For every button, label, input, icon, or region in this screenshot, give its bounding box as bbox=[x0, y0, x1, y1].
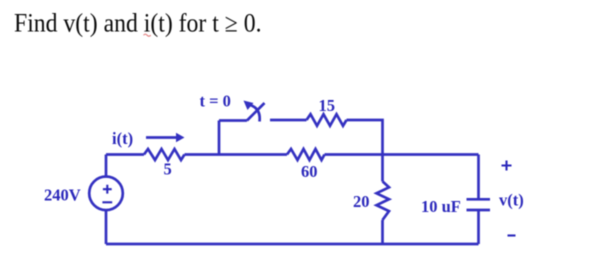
svg-text:5: 5 bbox=[164, 160, 172, 179]
wire: middle rail left segment bbox=[106, 153, 144, 156]
svg-text:v(t): v(t) bbox=[499, 191, 524, 210]
switch SW arrowhead bbox=[244, 101, 254, 111]
wire: switch branch vertical riser bbox=[218, 121, 221, 155]
resistor R 5 ohm bbox=[144, 149, 185, 160]
wire: switch throw to 15 ohm resistor bbox=[270, 119, 307, 122]
svg-text:i(t): i(t) bbox=[112, 129, 133, 148]
voltage source minus sign bbox=[102, 201, 112, 203]
wire: left vertical from middle wire down to source top bbox=[105, 155, 108, 177]
wire: capacitor branch upper bbox=[477, 155, 480, 200]
capacitor minus polarity bbox=[508, 234, 516, 236]
svg-text:20: 20 bbox=[353, 192, 370, 211]
svg-text:15: 15 bbox=[319, 96, 336, 115]
svg-text:240V: 240V bbox=[44, 186, 81, 205]
capacitor plus polarity bbox=[502, 161, 512, 171]
wire: bottom rail bbox=[106, 243, 479, 246]
current arrow i(t) bbox=[146, 136, 177, 139]
capacitor C 10uF top plate bbox=[467, 198, 491, 201]
wire: 20 ohm branch upper bbox=[381, 155, 384, 182]
resistor R 15 ohm bbox=[307, 114, 347, 126]
resistor R 20 ohm vertical bbox=[377, 181, 390, 220]
svg-text:10 uF: 10 uF bbox=[421, 197, 461, 216]
voltage source VS1 240V circle bbox=[89, 177, 123, 211]
resistor R 60 ohm bbox=[287, 149, 325, 160]
current arrow head bbox=[176, 133, 185, 142]
capacitor C 10uF bottom plate bbox=[467, 209, 491, 212]
wire: middle rail segment between 5 and 60 bbox=[185, 153, 288, 156]
svg-text:t = 0: t = 0 bbox=[200, 92, 231, 111]
svg-text:60: 60 bbox=[301, 162, 318, 181]
wire: capacitor branch lower bbox=[477, 210, 480, 244]
wire: source bottom to bottom rail bbox=[105, 210, 108, 244]
wire: 20 ohm branch lower bbox=[381, 220, 384, 244]
voltage source plus sign bbox=[103, 185, 112, 194]
switch SW t=0 blade bbox=[247, 103, 265, 121]
wire: top branch right corner down to middle rail bbox=[347, 120, 383, 155]
switch SW opening arc bbox=[251, 105, 260, 122]
svg-text:Find v(t) and i(t) for t ≥ 0.: Find v(t) and i(t) for t ≥ 0. bbox=[14, 9, 262, 38]
wire: middle rail right segment bbox=[325, 153, 479, 156]
spellcheck squiggle under i(t) bbox=[144, 34, 151, 36]
wire: switch branch horizontal to switch pole bbox=[219, 119, 247, 122]
